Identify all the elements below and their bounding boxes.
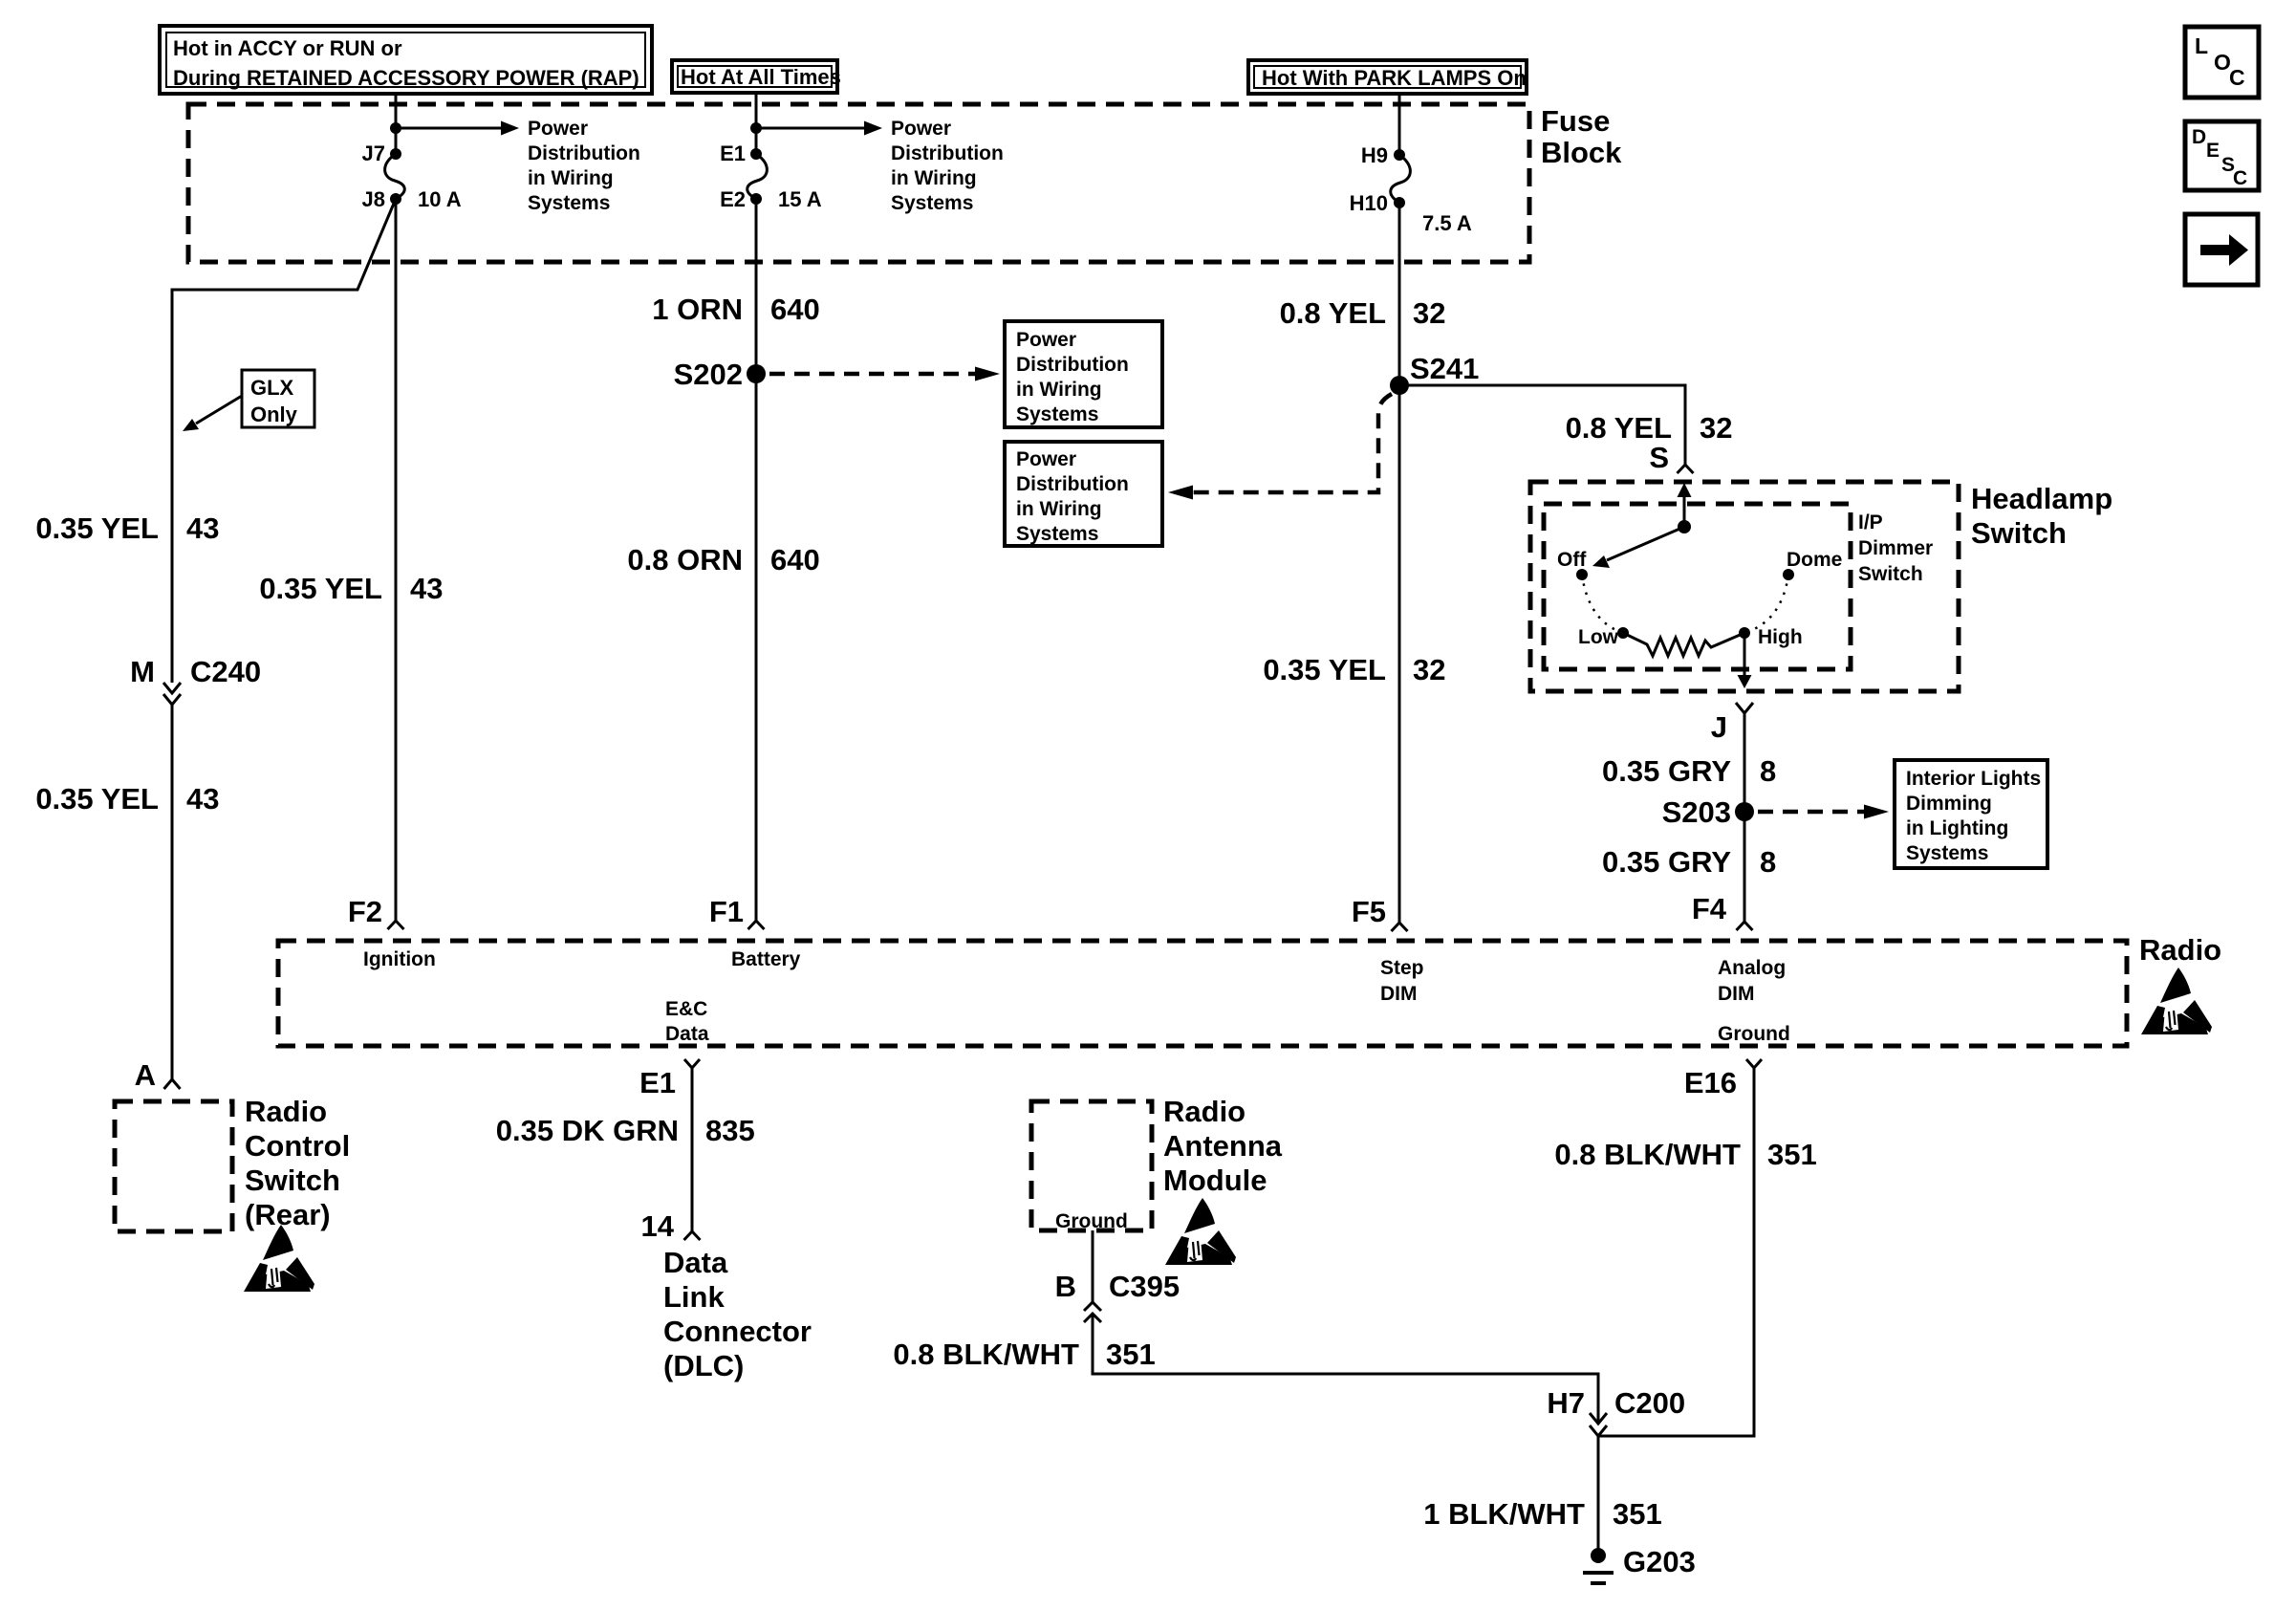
terminal Dome — [1783, 569, 1794, 580]
Interior Lights Dimming box — [1895, 760, 2047, 868]
ESD symbol (Radio) — [2141, 968, 2212, 1034]
connector F5 crow foot — [1392, 923, 1408, 931]
svg-text:1 BLK/WHT: 1 BLK/WHT — [1423, 1497, 1585, 1531]
Radio dashed box — [278, 941, 2127, 1046]
svg-text:J7: J7 — [362, 141, 385, 165]
svg-text:0.8 BLK/WHT: 0.8 BLK/WHT — [1554, 1138, 1741, 1171]
Power Distribution box 2 — [1005, 442, 1162, 546]
fuse J7/J8 10 A — [362, 141, 462, 211]
svg-text:E&C: E&C — [665, 998, 707, 1020]
node junction at J7 feed — [390, 122, 401, 134]
I/P Dimmer Switch inner dashed box — [1544, 504, 1851, 669]
wire from Hot At All Times to fuse E1 — [755, 93, 758, 154]
svg-text:Headlamp: Headlamp — [1971, 482, 2112, 515]
svg-text:F1: F1 — [709, 895, 744, 928]
svg-text:Switch: Switch — [245, 1164, 340, 1197]
svg-text:H9: H9 — [1361, 143, 1388, 167]
fuse block dashed box — [188, 104, 1529, 262]
connector F4 crow foot — [1737, 922, 1753, 930]
Power Distribution box 1 — [1005, 321, 1162, 427]
svg-text:M: M — [130, 655, 155, 688]
svg-text:Switch: Switch — [1858, 563, 1923, 585]
svg-text:S202: S202 — [674, 358, 743, 391]
svg-text:S203: S203 — [1662, 795, 1731, 829]
svg-text:Ground: Ground — [1718, 1023, 1790, 1045]
svg-text:Radio: Radio — [1163, 1095, 1245, 1128]
svg-text:DIM: DIM — [1718, 983, 1755, 1005]
svg-text:8: 8 — [1760, 754, 1776, 788]
dotted arc Dome to High — [1744, 575, 1788, 633]
arrow down from High to J — [1744, 633, 1746, 676]
svg-text:Link: Link — [663, 1280, 725, 1314]
GLX arrow — [196, 396, 242, 424]
svg-text:E1: E1 — [639, 1066, 676, 1099]
svg-text:C240: C240 — [190, 655, 261, 688]
fuse E1/E2 15 A — [720, 141, 822, 211]
switch wiper arrow up to S — [1683, 496, 1686, 527]
power source box "Hot At All Times" — [672, 60, 841, 93]
connector J chevron — [1736, 703, 1753, 713]
svg-text:1 ORN: 1 ORN — [652, 293, 743, 326]
svg-text:Antenna: Antenna — [1163, 1129, 1283, 1163]
switch position arrow to Off — [1607, 527, 1684, 560]
svg-text:351: 351 — [1613, 1497, 1662, 1531]
arrow to Power Distribution (left) — [396, 127, 501, 130]
svg-text:640: 640 — [770, 543, 820, 577]
terminal Low — [1617, 627, 1629, 639]
svg-text:Only: Only — [250, 402, 298, 426]
svg-text:S241: S241 — [1410, 352, 1479, 385]
wire from RAP box to fuse J7 — [395, 94, 398, 154]
svg-text:During RETAINED ACCESSORY POWE: During RETAINED ACCESSORY POWER (RAP) — [173, 66, 639, 90]
svg-text:J: J — [1711, 710, 1727, 744]
svg-text:Power: Power — [1016, 448, 1076, 470]
Headlamp Switch outer dashed box — [1530, 482, 1959, 691]
svg-text:0.8 YEL: 0.8 YEL — [1280, 296, 1386, 330]
svg-text:I/P: I/P — [1858, 511, 1883, 533]
svg-text:0.35 YEL: 0.35 YEL — [35, 511, 159, 545]
arrow to Power Distribution (middle) — [756, 127, 864, 130]
wire E16 down and left to H7 — [1598, 1068, 1754, 1436]
svg-text:Hot At All Times: Hot At All Times — [681, 65, 841, 89]
forward arrow box — [2185, 214, 2258, 285]
power source box "Hot in ACCY or RUN or During RETAINED ACCESSORY POWER (RAP)" — [160, 26, 652, 94]
svg-text:32: 32 — [1413, 296, 1445, 330]
svg-text:0.35 YEL: 0.35 YEL — [1263, 653, 1386, 686]
svg-text:8: 8 — [1760, 845, 1776, 879]
svg-text:Block: Block — [1541, 136, 1622, 169]
svg-text:351: 351 — [1106, 1338, 1156, 1371]
svg-text:S: S — [1649, 441, 1669, 474]
svg-text:Battery: Battery — [731, 948, 801, 970]
svg-text:High: High — [1758, 626, 1803, 648]
svg-text:Switch: Switch — [1971, 516, 2067, 550]
svg-text:(Rear): (Rear) — [245, 1198, 331, 1231]
svg-text:Systems: Systems — [1016, 523, 1098, 545]
terminal High — [1739, 627, 1750, 639]
ground G203 — [1583, 1545, 1696, 1583]
connector S crow foot — [1678, 465, 1694, 473]
svg-text:L: L — [2195, 33, 2208, 58]
splice S241 — [1390, 376, 1409, 395]
svg-text:43: 43 — [186, 511, 219, 545]
splice S203 — [1735, 802, 1754, 821]
DESC box — [2185, 121, 2259, 190]
svg-text:835: 835 — [705, 1114, 755, 1147]
svg-text:640: 640 — [770, 293, 820, 326]
svg-text:Power: Power — [1016, 329, 1076, 351]
wire E2 down to radio F1 — [755, 199, 758, 921]
svg-text:C200: C200 — [1614, 1386, 1685, 1420]
svg-text:in Wiring: in Wiring — [528, 167, 614, 189]
svg-text:Radio: Radio — [245, 1095, 327, 1128]
GLX Only box — [242, 370, 314, 427]
svg-text:0.8 ORN: 0.8 ORN — [627, 543, 743, 577]
ESD symbol (Radio Control Switch) — [244, 1225, 314, 1292]
svg-text:Fuse: Fuse — [1541, 104, 1610, 138]
svg-text:0.35 YEL: 0.35 YEL — [259, 572, 382, 605]
dotted arc Off to Low — [1582, 575, 1623, 633]
svg-text:32: 32 — [1413, 653, 1445, 686]
wire S241 branch right to headlamp switch — [1399, 385, 1685, 465]
svg-text:14: 14 — [641, 1209, 675, 1243]
dashed arrow S202 to Power Distribution box — [769, 372, 975, 377]
Radio Antenna Module dashed box — [1031, 1101, 1152, 1230]
svg-text:Distribution: Distribution — [1016, 473, 1129, 495]
connector C200 (H7) inline chevrons — [1547, 1386, 1685, 1436]
svg-text:Systems: Systems — [891, 192, 973, 214]
wire J8 diagonal to left branch — [172, 199, 396, 683]
svg-text:0.8 BLK/WHT: 0.8 BLK/WHT — [893, 1338, 1079, 1371]
svg-text:DIM: DIM — [1380, 983, 1418, 1005]
svg-text:in Wiring: in Wiring — [1016, 498, 1102, 520]
svg-text:Systems: Systems — [1906, 842, 1988, 864]
svg-text:Connector: Connector — [663, 1315, 812, 1348]
svg-text:Data: Data — [663, 1246, 728, 1279]
dashed arrow S203 to Interior Lights box — [1758, 810, 1864, 815]
svg-text:Ground: Ground — [1055, 1210, 1128, 1232]
wire from PARK LAMPS box to fuse H9 — [1398, 94, 1401, 155]
svg-text:0.8 YEL: 0.8 YEL — [1566, 411, 1672, 445]
connector C395 (B) inline chevrons — [1055, 1270, 1180, 1322]
svg-text:Dimming: Dimming — [1906, 793, 1992, 815]
svg-text:7.5 A: 7.5 A — [1422, 211, 1472, 235]
svg-text:E16: E16 — [1684, 1066, 1737, 1099]
svg-text:0.35 GRY: 0.35 GRY — [1602, 845, 1731, 879]
fuse H9/H10 7.5 A — [1350, 143, 1472, 235]
svg-text:Hot With PARK LAMPS On: Hot With PARK LAMPS On — [1262, 66, 1527, 90]
svg-text:H10: H10 — [1350, 191, 1388, 215]
connector 14 crow foot into DLC — [684, 1231, 701, 1240]
connector C240 (M) inline chevrons — [130, 655, 261, 705]
svg-text:Off: Off — [1557, 549, 1587, 571]
svg-text:0.35 DK GRN: 0.35 DK GRN — [496, 1114, 679, 1147]
svg-text:A: A — [135, 1058, 156, 1092]
svg-text:E1: E1 — [720, 141, 746, 165]
connector F2 crow foot — [388, 921, 404, 929]
svg-text:Dimmer: Dimmer — [1858, 537, 1933, 559]
svg-text:J8: J8 — [362, 187, 385, 211]
svg-text:Radio: Radio — [2139, 933, 2221, 967]
svg-text:Distribution: Distribution — [1016, 354, 1129, 376]
svg-text:(DLC): (DLC) — [663, 1349, 744, 1382]
svg-text:10 A: 10 A — [418, 187, 462, 211]
svg-text:Module: Module — [1163, 1164, 1267, 1197]
svg-text:Dome: Dome — [1787, 549, 1842, 571]
svg-text:32: 32 — [1700, 411, 1732, 445]
svg-text:in Wiring: in Wiring — [891, 167, 977, 189]
wire J down to radio F4 — [1744, 713, 1746, 922]
svg-text:Analog: Analog — [1718, 957, 1786, 979]
svg-text:F5: F5 — [1352, 895, 1386, 928]
connector F1 crow foot — [748, 921, 765, 929]
svg-text:Power: Power — [891, 118, 951, 140]
svg-text:E: E — [2206, 140, 2220, 162]
svg-text:H7: H7 — [1547, 1386, 1585, 1420]
svg-text:in Wiring: in Wiring — [1016, 379, 1102, 401]
power source box "Hot With PARK LAMPS On" — [1248, 60, 1527, 94]
svg-text:Systems: Systems — [1016, 403, 1098, 425]
svg-text:C395: C395 — [1109, 1270, 1180, 1303]
svg-text:Power: Power — [528, 118, 588, 140]
resistor between Low and High — [1623, 633, 1744, 656]
svg-text:0.35 YEL: 0.35 YEL — [35, 782, 159, 816]
connector A crow foot into Radio Control Switch — [164, 1079, 181, 1089]
svg-text:B: B — [1055, 1270, 1076, 1303]
svg-text:F2: F2 — [348, 895, 382, 928]
wire antenna Ground down to B — [1092, 1230, 1094, 1302]
dashed arrow from S241 branch to Power Distribution box 2 — [1193, 394, 1392, 492]
terminal Off — [1576, 569, 1588, 580]
wire B down and right to H7 — [1093, 1314, 1598, 1424]
svg-text:E2: E2 — [720, 187, 746, 211]
svg-text:Data: Data — [665, 1023, 709, 1045]
svg-text:F4: F4 — [1692, 892, 1727, 925]
svg-text:Control: Control — [245, 1129, 350, 1163]
connector E16 crow foot below radio — [1746, 1059, 1762, 1068]
svg-text:43: 43 — [410, 572, 443, 605]
splice S202 — [747, 364, 766, 383]
ESD symbol (Radio Antenna Module) — [1165, 1198, 1236, 1265]
wire E1 down to DLC — [691, 1068, 694, 1231]
svg-text:G203: G203 — [1623, 1545, 1696, 1578]
svg-text:Step: Step — [1380, 957, 1424, 979]
svg-text:351: 351 — [1767, 1138, 1817, 1171]
wire J8 down to radio F2 — [395, 199, 398, 921]
svg-text:43: 43 — [186, 782, 219, 816]
svg-text:15 A: 15 A — [778, 187, 822, 211]
node junction at E1 feed — [750, 122, 762, 134]
switch pivot — [1678, 520, 1691, 533]
svg-text:0.35 GRY: 0.35 GRY — [1602, 754, 1731, 788]
svg-text:GLX: GLX — [250, 376, 294, 400]
svg-text:Hot in ACCY or RUN or: Hot in ACCY or RUN or — [173, 36, 402, 60]
svg-text:Systems: Systems — [528, 192, 610, 214]
connector E1 crow foot below radio — [684, 1059, 700, 1068]
svg-text:C: C — [2233, 167, 2247, 189]
svg-text:Distribution: Distribution — [891, 142, 1004, 164]
wire H10 down to radio F5 — [1398, 203, 1401, 923]
svg-text:D: D — [2192, 126, 2206, 148]
svg-text:C: C — [2229, 65, 2245, 90]
wire H7 down to G203 — [1597, 1436, 1600, 1550]
LOC box — [2185, 27, 2259, 98]
wire C240 down to A — [171, 705, 174, 1079]
Radio Control Switch dashed box — [115, 1101, 232, 1231]
svg-text:Ignition: Ignition — [363, 948, 436, 970]
svg-text:Interior Lights: Interior Lights — [1906, 768, 2041, 790]
svg-text:Distribution: Distribution — [528, 142, 640, 164]
svg-text:in Lighting: in Lighting — [1906, 817, 2008, 839]
